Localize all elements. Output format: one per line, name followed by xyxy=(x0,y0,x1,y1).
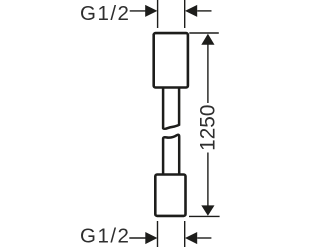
extension line top right xyxy=(184,0,186,28)
extension line right bottom (horizontal) xyxy=(189,215,220,217)
extension line bottom right xyxy=(184,221,186,247)
wire: top dimension tail right xyxy=(197,10,211,12)
bottom connector body xyxy=(155,175,185,216)
hose tube upper piece with break xyxy=(163,88,179,129)
top connector body xyxy=(154,33,188,87)
extension line bottom left xyxy=(157,221,159,247)
wire: bottom dimension tail left xyxy=(129,237,146,239)
bottom dimension arrow right xyxy=(185,232,197,244)
svg-text:G1/2: G1/2 xyxy=(80,2,130,25)
bottom dimension arrow left xyxy=(145,232,157,244)
hose tube lower piece with break xyxy=(163,135,179,174)
wire: vertical dimension line lower xyxy=(207,153,209,207)
wire: vertical dimension line upper xyxy=(207,44,209,103)
top dimension arrow right xyxy=(185,5,197,17)
extension line top left xyxy=(157,0,159,28)
vertical dimension arrow down xyxy=(201,205,214,215)
vertical dimension arrow up xyxy=(201,34,214,45)
svg-text:G1/2: G1/2 xyxy=(80,224,130,247)
svg-text:1250: 1250 xyxy=(196,105,219,151)
wire: top dimension tail left xyxy=(130,10,147,12)
top dimension arrow left xyxy=(145,5,157,17)
extension line right top (horizontal) xyxy=(189,32,219,34)
wire: bottom dimension tail right xyxy=(197,237,211,239)
